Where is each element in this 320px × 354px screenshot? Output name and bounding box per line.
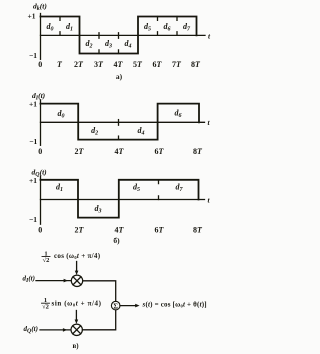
svg-text:5T: 5T — [133, 60, 143, 69]
svg-text:4T: 4T — [115, 226, 125, 235]
svg-text:7T: 7T — [172, 60, 182, 69]
svg-text:a): a) — [116, 72, 123, 81]
svg-text:cos (ω0t + π/4): cos (ω0t + π/4) — [54, 252, 101, 260]
svg-text:√2: √2 — [43, 256, 50, 264]
svg-text:4T: 4T — [114, 60, 124, 69]
svg-text:√2: √2 — [42, 303, 49, 311]
svg-text:+1: +1 — [27, 12, 35, 21]
svg-text:3T: 3T — [94, 60, 104, 69]
svg-text:dk(t): dk(t) — [33, 1, 47, 12]
svg-text:6T: 6T — [155, 147, 165, 156]
svg-text:Σ: Σ — [113, 302, 118, 310]
svg-text:s(t) = cos [ω0t + θ(t)]: s(t) = cos [ω0t + θ(t)] — [142, 300, 207, 308]
svg-text:2T: 2T — [74, 60, 84, 69]
svg-text:sin (ω0t + π/4): sin (ω0t + π/4) — [52, 300, 102, 308]
svg-text:6T: 6T — [153, 60, 163, 69]
svg-text:+1: +1 — [29, 176, 37, 185]
svg-text:0: 0 — [38, 147, 42, 156]
svg-text:−1: −1 — [29, 215, 37, 224]
svg-text:0: 0 — [38, 60, 42, 69]
svg-text:2T: 2T — [75, 147, 85, 156]
svg-text:6T: 6T — [155, 226, 165, 235]
svg-text:0: 0 — [38, 226, 42, 235]
svg-text:+1: +1 — [29, 99, 37, 108]
svg-text:б): б) — [113, 236, 120, 245]
svg-text:−1: −1 — [29, 137, 37, 146]
svg-text:8T: 8T — [191, 60, 201, 69]
svg-text:8T: 8T — [193, 147, 203, 156]
svg-text:в): в) — [72, 342, 79, 350]
svg-text:−1: −1 — [29, 51, 37, 60]
svg-text:8T: 8T — [193, 226, 203, 235]
svg-text:4T: 4T — [115, 147, 125, 156]
svg-text:2T: 2T — [75, 226, 85, 235]
